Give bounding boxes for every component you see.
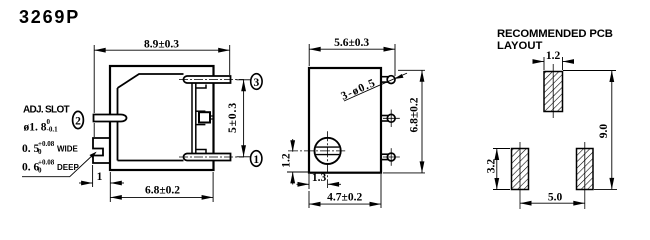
side pin 3 (top) — [381, 76, 395, 84]
svg-text:6.8±0.2: 6.8±0.2 — [409, 97, 421, 132]
svg-text:3.2: 3.2 — [485, 159, 497, 174]
pad bottom-right (pin 3) — [577, 149, 594, 190]
adj slot protrusion (left bottom) — [93, 138, 110, 163]
pad top (pin 2) — [544, 72, 563, 112]
pin 1 lead (bottom right) — [183, 154, 230, 161]
side pin 2 (middle) — [381, 110, 400, 128]
svg-text:3: 3 — [254, 77, 260, 89]
pin 3 lead (top right) — [183, 76, 230, 83]
svg-text:RECOMMENDED PCB: RECOMMENDED PCB — [497, 28, 613, 40]
svg-text:ø1. 8: ø1. 8 — [24, 122, 47, 134]
svg-text:1: 1 — [97, 171, 103, 183]
dimension 1.2 (top pad width) — [533, 57, 572, 70]
svg-text:1.2: 1.2 — [281, 153, 293, 168]
svg-text:-0.1: -0.1 — [47, 126, 59, 134]
screw centerlines — [288, 150, 345, 152]
pin number 2 circled — [73, 111, 84, 128]
svg-text:WIDE: WIDE — [57, 144, 79, 153]
dimension 6.8±0.2 (front bottom) — [110, 172, 213, 202]
svg-text:1.2: 1.2 — [546, 50, 561, 62]
svg-text:6.8±0.2: 6.8±0.2 — [145, 185, 180, 197]
svg-text:2: 2 — [75, 115, 81, 127]
pin 2 lead (left) — [94, 115, 127, 122]
svg-text:9.0: 9.0 — [598, 124, 610, 139]
pad bottom-left (pin 1) — [512, 149, 529, 190]
wiper middle square — [196, 110, 206, 112]
svg-text:5.0: 5.0 — [548, 192, 563, 204]
3-ø0.5 leader — [344, 73, 407, 101]
side body — [309, 68, 381, 173]
dimension 5.6±0.3 (side width) — [309, 44, 395, 76]
dimension 1.3 (left edge to screw center) — [297, 174, 342, 189]
housing outline — [110, 66, 214, 170]
pin number 3 circled — [251, 74, 262, 90]
svg-text:8.9±0.3: 8.9±0.3 — [144, 39, 179, 51]
dimension 9.0 (pad column height) — [563, 71, 617, 190]
svg-text:+0.08: +0.08 — [38, 159, 55, 167]
dimension 6.8±0.2 (side height) — [383, 70, 425, 173]
dimension 4.7±0.2 (side bottom) — [309, 174, 381, 208]
dimension 1 (slot protrusion) — [79, 165, 124, 187]
pin 3 centerline — [179, 79, 244, 81]
contact strip bottom tab — [196, 150, 206, 154]
svg-text:5±0.3: 5±0.3 — [227, 102, 239, 133]
svg-text:1: 1 — [253, 154, 259, 166]
svg-text:0: 0 — [38, 167, 42, 175]
pin 1 centerline — [179, 156, 244, 158]
svg-text:ADJ. SLOT: ADJ. SLOT — [23, 105, 70, 116]
dimension 5±0.3 (pin spacing) — [237, 80, 251, 157]
dimension 8.9±0.3 (front width) — [94, 45, 230, 137]
dimension 1.2 (screw center to bottom) — [287, 139, 309, 185]
adjustment screw circle — [315, 138, 341, 164]
svg-text:0. 6: 0. 6 — [22, 162, 40, 174]
adj slot leader — [22, 153, 96, 177]
svg-text:3269P: 3269P — [19, 7, 80, 27]
svg-text:5.6±0.3: 5.6±0.3 — [334, 37, 369, 49]
svg-text:+0.08: +0.08 — [38, 140, 55, 148]
svg-text:0: 0 — [38, 148, 42, 156]
svg-text:LAYOUT: LAYOUT — [497, 40, 543, 52]
pin number 1 circled — [251, 151, 262, 167]
svg-text:0. 5: 0. 5 — [22, 143, 40, 155]
dimension 3.2 (pad height) — [493, 149, 510, 190]
inner body outline with chamfer — [118, 74, 184, 88]
svg-text:4.7±0.2: 4.7±0.2 — [327, 192, 362, 204]
dimension 5.0 (pad spacing) — [520, 202, 585, 204]
contact strip top tab — [196, 85, 206, 89]
contact strip inner vertical lines — [191, 83, 193, 154]
svg-text:1.3: 1.3 — [312, 172, 327, 184]
side pin 1 (bottom) — [381, 148, 400, 166]
